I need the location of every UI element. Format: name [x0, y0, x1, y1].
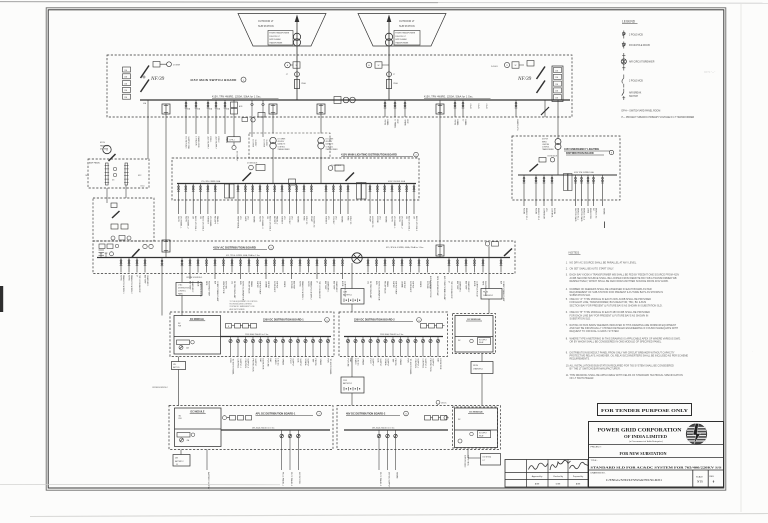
feeder F85 AIR CONDITIONING PLANT	[500, 258, 502, 273]
svg-text:SUB STATION: SUB STATION	[258, 25, 274, 28]
svg-text:LTG PANEL-2: LTG PANEL-2	[400, 216, 403, 229]
svg-text:2-1x70: 2-1x70	[469, 104, 471, 109]
stack ticks	[99, 249, 105, 251]
svg-text:LTG: LTG	[290, 216, 292, 220]
svg-text:BY THE LT SWITCHGEAR MANUFACTU: BY THE LT SWITCHGEAR MANUFACTURER.	[570, 368, 621, 371]
svg-text:DC MODULE: DC MODULE	[467, 319, 481, 321]
feeder F2 LT SWGR PANEL FDR	[195, 100, 197, 134]
svg-text:SPARE: SPARE	[297, 216, 300, 223]
DC feeder D2-4 PLCC SUPPLY	[370, 337, 372, 357]
incomer 2 metering	[366, 62, 372, 68]
feeder F69 BATTERY CHARGER-1	[325, 258, 327, 273]
breaker Q2 right	[537, 67, 546, 80]
svg-text:OF INDIA LIMITED: OF INDIA LIMITED	[624, 434, 667, 439]
RC supply relay box	[478, 338, 491, 345]
DC feeder D2-13 BAY KIOSK FDR	[437, 337, 439, 357]
svg-text:LTG: LTG	[378, 216, 380, 220]
svg-text:DG SUPPLY: DG SUPPLY	[236, 151, 238, 162]
svg-text:SWYD: SWYD	[391, 216, 393, 223]
svg-text:PANEL: PANEL	[386, 281, 389, 287]
DC board 2 incomer chain	[421, 324, 427, 329]
svg-text:FIRE: FIRE	[347, 216, 349, 221]
48V DC module 2	[455, 408, 498, 448]
svg-text:SUBSTATION SLD.: SUBSTATION SLD.	[570, 294, 592, 297]
svg-text:DG MODULE: DG MODULE	[548, 156, 558, 158]
feeder F9 SWYD PANEL	[454, 100, 456, 117]
AC bus left end symbols	[100, 253, 102, 258]
feeder F42 CORRIDOR LTG	[543, 175, 545, 206]
svg-text:RECEPT: RECEPT	[214, 216, 216, 225]
svg-text:D-5001: D-5001	[491, 66, 498, 68]
svg-text:SPARE: SPARE	[341, 216, 344, 223]
svg-text:LTG PANEL-2: LTG PANEL-2	[187, 216, 190, 229]
wire battery1 to DC board2	[351, 357, 353, 378]
svg-text:STANDARD SLD FOR AC&DC SYSTEM: STANDARD SLD FOR AC&DC SYSTEM FOR 765/40…	[591, 465, 722, 469]
svg-text:PROTECTION: PROTECTION	[429, 359, 431, 373]
svg-text:SPARE: SPARE	[385, 216, 388, 223]
svg-text:RESPECTIVELY, WHICH SHALL BE F: RESPECTIVELY, WHICH SHALL BE FED FROM AN…	[570, 280, 669, 283]
svg-text:LTG PANEL-3: LTG PANEL-3	[261, 216, 264, 229]
svg-text:LTG: LTG	[246, 216, 248, 220]
svg-text:FUTURE: FUTURE	[347, 359, 349, 368]
svg-text:48V DC SUPPLY: 48V DC SUPPLY	[387, 472, 389, 488]
feeder F31 SPARE	[340, 184, 342, 215]
svg-text:CONTROL: CONTROL	[414, 359, 416, 370]
svg-text:REV.: REV.	[710, 476, 715, 478]
feeder to AC distribution board right	[439, 100, 441, 245]
feeder F51 LT TRF COOLING FDR	[136, 258, 138, 273]
svg-text:220V DC DISTRIBUTION BOARD-2: 220V DC DISTRIBUTION BOARD-2	[354, 319, 395, 322]
DC module 1 enclosure	[170, 312, 334, 357]
svg-text:BAY: BAY	[349, 359, 352, 364]
svg-text:BLDG LTG DB-2: BLDG LTG DB-2	[201, 216, 203, 232]
svg-text:FROM: FROM	[483, 292, 489, 294]
svg-text:CONTROL: CONTROL	[237, 359, 239, 370]
svg-text:FUTURE: FUTURE	[267, 359, 269, 368]
svg-text:PANEL: PANEL	[386, 120, 389, 126]
svg-text:HOUSE LTG: HOUSE LTG	[312, 216, 314, 228]
svg-text:7.: 7.	[566, 324, 568, 327]
svg-text:NTS: NTS	[697, 479, 703, 483]
feeder F4 AUX SUPPLY FDR-2	[215, 100, 217, 134]
svg-text:PLCC: PLCC	[289, 359, 291, 365]
svg-text:PROJECT :: PROJECT :	[591, 447, 603, 449]
transformer T2	[385, 33, 392, 40]
DC module 1	[174, 316, 221, 355]
legend air circuit breaker	[623, 53, 625, 71]
svg-text:SPARE: SPARE	[319, 359, 322, 366]
svg-text:EMRG LTG: EMRG LTG	[594, 208, 596, 219]
svg-text:OF LT SWITCHGEAR.: OF LT SWITCHGEAR.	[570, 377, 595, 380]
svg-text:FDR-2: FDR-2	[217, 137, 219, 144]
breaker Q1 left	[141, 66, 150, 79]
svg-text:NF/39: NF/39	[150, 76, 165, 82]
feeder F52 BATTERY CHARGER-1	[144, 258, 146, 273]
LT AC distribution control panel	[176, 283, 202, 296]
svg-text:OR BY WHOM SHALL BE CONSIDERED: OR BY WHOM SHALL BE CONSIDERED IN ONE MO…	[570, 341, 663, 344]
415V main switch board enclosure	[107, 55, 572, 117]
lighting incomer breaker left	[243, 173, 252, 182]
svg-text:BLDG LTG DB-1: BLDG LTG DB-1	[194, 216, 196, 232]
feeder F30 COLONY LTG	[332, 184, 334, 215]
svg-text:SUPPLY-1: SUPPLY-1	[416, 359, 418, 369]
feeder F72 OIL FILTRATION PLANT	[367, 258, 369, 273]
svg-text:415V 1PH 3 WIRE 100A: 415V 1PH 3 WIRE 100A	[574, 171, 594, 174]
signature approved	[529, 463, 548, 469]
svg-text:9.: 9.	[566, 351, 568, 354]
svg-text:SPARE: SPARE	[282, 359, 285, 366]
svg-text:PUMP: PUMP	[369, 216, 371, 222]
svg-text:CONTROL: CONTROL	[326, 146, 334, 148]
svg-text:DC MODULE: DC MODULE	[191, 411, 205, 413]
svg-text:DG SET(S): DG SET(S)	[483, 457, 492, 459]
svg-text:SUPPLY: SUPPLY	[371, 359, 373, 367]
legend four pole mccb	[623, 42, 625, 49]
spare tap on lighting bus	[289, 179, 296, 185]
feeder F33 PUMP HOUSE LTG	[369, 184, 371, 215]
svg-text:AGM: AGM	[535, 483, 540, 486]
svg-text:FIRE: FIRE	[303, 216, 305, 221]
svg-text:3.: 3.	[566, 274, 568, 277]
fuse pair	[99, 244, 105, 249]
scan paper edge bottom	[30, 514, 768, 517]
svg-text:SWYD: SWYD	[184, 216, 186, 223]
feeder F81 BATTERY CHARGER-1	[457, 258, 459, 273]
svg-text:SCALE: SCALE	[696, 475, 703, 478]
kwh meter right	[527, 61, 534, 67]
DC feeder D2-9 FDR TO SWYD PANEL	[407, 337, 409, 357]
svg-text:BATTERY SUPPLY: BATTERY SUPPLY	[207, 472, 210, 490]
feeder F75 WATER SUPPLY PUMP	[393, 258, 395, 273]
long drop 48V board 1	[206, 450, 208, 471]
svg-text:CONDITIONING PLANT: CONDITIONING PLANT	[502, 281, 505, 302]
meter box W near box bottom	[258, 113, 265, 118]
svg-text:415, 3PH & 4 WIRE, 400A, 25kA: 415, 3PH & 4 WIRE, 400A, 25kA for 1 Sec	[386, 246, 424, 249]
feeder F45 SWITCHYARD EMRG LTG-2	[581, 175, 583, 206]
svg-text:RC SUPPLY: RC SUPPLY	[479, 340, 487, 342]
svg-text:DG KWH: DG KWH	[173, 65, 181, 67]
lighting control transformer 2	[318, 137, 324, 143]
feeder F70 BATTERY CHARGER-2	[333, 258, 335, 273]
svg-text:EMRG FDR: EMRG FDR	[589, 208, 591, 219]
svg-text:SUPPLY PUMP: SUPPLY PUMP	[394, 281, 396, 295]
svg-text:415V AC DISTRIBUTION BOARD: 415V AC DISTRIBUTION BOARD	[213, 245, 256, 249]
svg-text:SUPPLY: SUPPLY	[386, 359, 388, 367]
feeder F48 SPARE	[602, 175, 604, 206]
svg-text:TRF COOLING FDR: TRF COOLING FDR	[450, 281, 452, 299]
svg-text:CHARGER-1: CHARGER-1	[146, 275, 149, 286]
svg-text:FDR: FDR	[396, 120, 398, 125]
svg-text:SWYD: SWYD	[398, 216, 400, 223]
svg-text:BLDG LTG DB-2: BLDG LTG DB-2	[415, 216, 417, 232]
fuse FR3	[554, 81, 562, 86]
48V DC bus 1	[221, 429, 330, 431]
svg-text:SUPPLY: SUPPLY	[299, 359, 301, 367]
svg-text:DRAWING NO.: DRAWING NO.	[591, 472, 606, 475]
svg-text:AMF PANEL: AMF PANEL	[89, 162, 101, 165]
feeder F82 BATTERY CHARGER-2	[465, 258, 467, 273]
DC module 2	[455, 316, 493, 353]
feeder F63 WORKSHOP SUPPLY	[274, 258, 276, 273]
svg-text:SPARE: SPARE	[283, 281, 286, 288]
svg-text:POWER GRID CORPORATION: POWER GRID CORPORATION	[598, 429, 683, 434]
svg-text:·: ·	[752, 349, 753, 353]
AMF panel enclosure	[88, 159, 149, 188]
svg-text:TO SWYD PANEL: TO SWYD PANEL	[329, 359, 332, 376]
svg-text:SUPPLY-2: SUPPLY-2	[424, 359, 426, 369]
svg-text:OIL: OIL	[367, 281, 369, 284]
feeder F67 SWYD PANEL ROOM DPH-2	[308, 258, 310, 273]
incomer 1 feeder arrow	[296, 16, 298, 100]
svg-text:EMRG LTG-1: EMRG LTG-1	[525, 208, 527, 221]
svg-text:LT SWGR: LT SWGR	[195, 137, 197, 146]
lighting transformer feeder 2	[317, 104, 325, 114]
feeder F17 RECEPT PANEL-1	[214, 184, 216, 215]
svg-text:NO DRY AC SOURCE SHALL BE PARA: NO DRY AC SOURCE SHALL BE PARALLEL AT AN…	[570, 261, 638, 264]
DC feeder D1-13 SPARE	[320, 337, 322, 357]
svg-text:HOUSE LTG: HOUSE LTG	[371, 216, 373, 228]
svg-text:SWYD: SWYD	[384, 120, 386, 126]
svg-text:415V, TPN 4WIRE, 1250A, 50kA f: 415V, TPN 4WIRE, 1250A, 50kA for 1 Sec.	[212, 96, 262, 99]
svg-text:D T: D T	[483, 460, 486, 462]
DC feeder D1-9 PLCC SUPPLY	[290, 337, 292, 357]
svg-text:SWYD: SWYD	[307, 281, 309, 287]
DC feeder D1-7 EMRG LTG DC	[275, 337, 277, 357]
feeder F40 ROOM EMRG LTG-1	[523, 175, 525, 206]
svg-text:220V, 800A, 25kA DC for 1 Sec: 220V, 800A, 25kA DC for 1 Sec	[245, 333, 269, 336]
svg-text:LTG: LTG	[545, 208, 547, 212]
415V AC distribution board enclosure	[93, 241, 515, 274]
battery 220V-2	[341, 377, 364, 393]
lighting control transformer 1	[270, 137, 276, 143]
DC feeder D2-12 PROTECTION SUPPLY	[430, 337, 432, 357]
scan paper edge right	[740, 4, 742, 512]
transformer T2 label box	[394, 31, 420, 46]
feeder F24 STREET LTG	[281, 184, 283, 215]
svg-text:W: W	[296, 65, 298, 67]
svg-text:PLCC PANEL-1: PLCC PANEL-1	[282, 472, 285, 487]
feeder F1 DG SET AUX SUPPLY FDR	[185, 100, 187, 134]
DC feeder D2-10 CONTROL SUPPLY-1	[415, 337, 417, 357]
svg-text:CHARGER-2: CHARGER-2	[483, 294, 493, 297]
svg-text:DPH-1: DPH-1	[230, 139, 235, 141]
svg-text:SUPPLY: SUPPLY	[431, 359, 433, 367]
svg-text:TITLE :: TITLE :	[591, 460, 599, 462]
svg-text:SWYD: SWYD	[120, 275, 122, 281]
svg-text:Prepared by: Prepared by	[573, 475, 583, 478]
svg-text:STREET: STREET	[206, 216, 208, 225]
svg-text:48V, 400A, 25kA DC for 1 Sec: 48V, 400A, 25kA DC for 1 Sec	[372, 426, 395, 429]
svg-text:ROOM: ROOM	[535, 208, 537, 215]
svg-text:BATTERY-2: BATTERY-2	[343, 382, 352, 385]
svg-text:LTG: LTG	[283, 216, 285, 220]
lighting bus	[177, 183, 416, 185]
dashed enclosure lighting transformers	[249, 133, 330, 158]
svg-text:CONDITIONING PLANT: CONDITIONING PLANT	[216, 281, 219, 302]
AC DB incomer breaker right	[436, 245, 444, 256]
feeder F20 SPARE	[252, 184, 254, 215]
svg-text:POWER TRANSFORMER: POWER TRANSFORMER	[269, 32, 290, 35]
48V board 2 incomer chain	[425, 416, 431, 421]
svg-text:C/ENGG/STD/LTSWGR765/SLD/01: C/ENGG/STD/LTSWGR765/SLD/01	[606, 478, 662, 482]
contactor K	[111, 203, 117, 208]
feeder F74 RECEPTACLE PANEL	[384, 258, 386, 273]
svg-text:LTG: LTG	[334, 216, 336, 220]
feeder F19 GATE LTG	[244, 184, 246, 215]
wire 48V module to battery	[180, 450, 182, 455]
main bus 415V TPN	[140, 99, 570, 101]
svg-text:1.: 1.	[566, 261, 568, 264]
svg-text:DG FOR: DG FOR	[542, 139, 549, 141]
svg-text:8.: 8.	[566, 338, 568, 341]
svg-text:SWITCHGEAR: SWITCHGEAR	[395, 38, 407, 41]
DG control column enclosure	[93, 198, 154, 241]
feeder F71 ACDB CONTROL ROOM	[342, 258, 344, 280]
feeder to AC distribution board left	[162, 104, 170, 114]
feeder F49 SWYD PANEL ROOM DPH-1	[120, 258, 122, 273]
AC bus	[97, 257, 510, 259]
svg-text:SUB STATION: SUB STATION	[399, 25, 415, 28]
svg-text:OUTDOOR LT: OUTDOOR LT	[258, 20, 274, 23]
feeder F60 RECEPTACLE PANEL	[248, 258, 250, 273]
feeder F39 CR BLDG LTG DB-2	[413, 184, 415, 215]
svg-text:PANEL ROOM DPH-2: PANEL ROOM DPH-2	[309, 281, 312, 300]
DG module AC board right	[485, 242, 489, 246]
svg-text:LTG PANEL: LTG PANEL	[209, 216, 212, 228]
svg-text:CT: CT	[286, 74, 288, 76]
column big breaker	[132, 249, 140, 257]
svg-text:RC SUPPLY: RC SUPPLY	[479, 433, 487, 435]
battery 48V box	[173, 455, 190, 467]
svg-text:SPARE: SPARE	[602, 208, 605, 215]
svg-text:CONTROL ROOM: CONTROL ROOM	[475, 281, 477, 297]
svg-text:Approved by: Approved by	[532, 475, 543, 478]
svg-text:CONTROL: CONTROL	[244, 359, 246, 370]
svg-text:CONTROL: CONTROL	[422, 359, 424, 370]
from source box right row1	[471, 362, 493, 374]
svg-text:SWYD: SWYD	[259, 216, 261, 223]
svg-text:6.: 6.	[566, 311, 568, 314]
svg-text:W: W	[378, 65, 380, 67]
svg-text:SYSTEM: SYSTEM	[224, 281, 226, 289]
48V feeder E1-2	[289, 430, 291, 470]
CT drops	[251, 100, 253, 137]
feeder F7 LT PANEL FDR	[394, 100, 396, 117]
feeder F59 EHV SWYD ILLUMINATION	[240, 258, 242, 280]
svg-text:PROTECTION: PROTECTION	[252, 359, 254, 373]
svg-text:PROTN: PROTN	[394, 359, 396, 367]
feeder F61 WATER SUPPLY PUMP	[257, 258, 259, 273]
DG set box bottom	[481, 454, 501, 466]
svg-text:TRANSFORMER: TRANSFORMER	[269, 42, 283, 45]
scan paper edge top	[0, 1, 438, 4]
svg-text:STN LTG: STN LTG	[349, 216, 351, 225]
svg-text:CT: CT	[393, 74, 395, 76]
DPH feeder box	[228, 137, 241, 142]
svg-text:PANEL ROOM DPH-1: PANEL ROOM DPH-1	[301, 281, 304, 300]
DC feeder D1-12 TRF PROTN	[312, 337, 314, 357]
feeder F53 BATTERY CHARGER-2	[189, 258, 191, 280]
feeder F46 LVDB EMRG FDR	[587, 175, 589, 206]
feeder F64 SPARE	[282, 258, 284, 273]
svg-text:4.: 4.	[566, 288, 568, 291]
feeder F55 FIRE FIGHTING PUMP	[206, 258, 208, 273]
svg-text:PLCC: PLCC	[369, 359, 371, 365]
svg-text:48V, 400A, 25kA DC for 1 Sec: 48V, 400A, 25kA DC for 1 Sec	[252, 426, 275, 429]
svg-text:SUPPLY: SUPPLY	[254, 140, 256, 148]
svg-text:415/415V: 415/415V	[278, 141, 286, 143]
svg-text:LTG XFMR: LTG XFMR	[326, 139, 335, 141]
svg-text:DISTRIBUTION: DISTRIBUTION	[178, 287, 190, 289]
feeder F66 SWYD PANEL ROOM DPH-1	[299, 258, 301, 273]
svg-text:CHARGER-1: CHARGER-1	[326, 281, 329, 292]
wire to charger 2 box	[488, 246, 490, 288]
title block frame	[589, 422, 724, 488]
powergrid logo	[686, 424, 706, 444]
48V DC module 1 enclosure	[169, 406, 333, 450]
feeder F22 CR BLDG LTG DB-3	[266, 184, 268, 215]
svg-text:FDR: FDR	[407, 359, 409, 364]
feeder F43 CONTROL ROOM	[551, 175, 553, 206]
feeder F41 ROOM EMRG LTG-2	[535, 175, 537, 206]
svg-text:OUTDOOR LT: OUTDOOR LT	[399, 20, 415, 23]
feeder F79 FUTURE BAY FDR	[427, 258, 429, 273]
MCB circles	[111, 236, 115, 240]
feeder F13 SWYD LTG PANEL-2	[185, 184, 187, 215]
svg-text:SWITCH: SWITCH	[629, 96, 638, 98]
svg-text:AND SWITCHYARD: AND SWITCHYARD	[230, 308, 246, 311]
DC feeder D2-8 SPARE	[400, 337, 402, 357]
lighting transformer feeder 1	[269, 104, 277, 114]
svg-text:EMRG LTG-2: EMRG LTG-2	[582, 208, 584, 221]
svg-text:SUPPLY: SUPPLY	[403, 281, 405, 289]
feeder F8 SPARE FDR	[404, 100, 406, 117]
fuse FR1	[554, 68, 562, 73]
svg-text:SWYD ILLUMINATION: SWYD ILLUMINATION	[377, 281, 380, 301]
feeder F56 AIR CONDITIONING PLANT	[214, 258, 216, 280]
AMF meters	[113, 167, 117, 171]
svg-text:FIRE FIGHTING PUMP: FIRE FIGHTING PUMP	[436, 276, 438, 297]
svg-text:POWER TRANSFORMER: POWER TRANSFORMER	[395, 32, 416, 35]
svg-text:LTG, 3PH 4 WIRE 100A: LTG, 3PH 4 WIRE 100A	[201, 180, 221, 183]
svg-text:11KV/415V LT: 11KV/415V LT	[395, 36, 406, 38]
DC feeder D1-8 SPARE	[282, 337, 284, 357]
P N meters	[143, 244, 147, 248]
svg-text:BLDG LTG DB-1: BLDG LTG DB-1	[408, 216, 410, 232]
svg-text:SUPPLY: SUPPLY	[275, 281, 277, 289]
svg-text:SUPPLY-2: SUPPLY-2	[246, 359, 248, 369]
svg-text:STREET: STREET	[281, 216, 283, 225]
48V DC bus 2	[344, 429, 448, 431]
svg-text:CONTROL ROOM: CONTROL ROOM	[199, 281, 201, 297]
svg-text:NF/39: NF/39	[517, 76, 532, 82]
bus section box right	[357, 183, 362, 200]
signature prepared	[570, 462, 589, 468]
48V feeder E2-1	[378, 430, 380, 470]
legend air break switch	[623, 89, 625, 92]
svg-text:415, TPN & 4 WIRE, 400A, 25kA: 415, TPN & 4 WIRE, 400A, 25kA for 1 Sec	[226, 254, 260, 257]
feeder F50 SWYD PANEL ROOM DPH-2	[128, 258, 130, 273]
svg-text:STN LTG: STN LTG	[305, 216, 307, 225]
feeder F14 CR BLDG LTG DB-1	[192, 184, 194, 215]
DC bus 2	[344, 336, 443, 338]
outdoor LT sub station 2 enclosure	[358, 14, 446, 47]
DPH feeder meter	[233, 142, 235, 146]
feeder F27 FIRE STN LTG	[303, 184, 305, 215]
svg-text:SUPPLY: SUPPLY	[379, 359, 381, 367]
svg-text:TO SWYD PANEL: TO SWYD PANEL	[409, 359, 412, 376]
svg-text:FOR TENDER PURPOSE ONLY: FOR TENDER PURPOSE ONLY	[601, 408, 689, 413]
